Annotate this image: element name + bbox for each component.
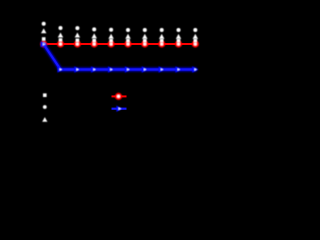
- white square marker 10: [194, 39, 198, 43]
- white up-triangle marker 5: [108, 34, 113, 39]
- legend 2: red line entry: [112, 95, 127, 98]
- white dot marker 10: [193, 28, 197, 32]
- red ring marker 9: [176, 41, 181, 46]
- red ring marker 4: [92, 41, 97, 46]
- blue triangle marker 3: [74, 66, 80, 72]
- red ring marker 1: [41, 41, 46, 46]
- white square marker 2: [59, 38, 63, 42]
- blue triangle marker 1: [41, 41, 47, 47]
- red ring marker 3: [75, 41, 80, 46]
- red ring marker 7: [142, 41, 147, 46]
- red ring marker 10: [193, 41, 198, 46]
- white up-triangle marker 3: [75, 33, 80, 38]
- blue triangle marker 9: [175, 66, 181, 72]
- white dot marker 3: [75, 26, 79, 30]
- blue triangle marker 4: [91, 66, 97, 72]
- red line series: [44, 42, 196, 45]
- white up-triangle marker 9: [176, 34, 181, 39]
- white square marker 9: [177, 39, 181, 43]
- white square marker 8: [160, 39, 164, 43]
- chart canvas: [0, 0, 204, 156]
- blue triangle marker 5: [108, 66, 114, 72]
- white dot marker 7: [143, 28, 147, 32]
- white dot marker 2: [59, 26, 63, 30]
- white up-triangle marker 7: [142, 34, 147, 39]
- legend 2: blue triangle marker: [116, 106, 122, 112]
- white square marker 4: [92, 39, 96, 43]
- white dot marker 4: [92, 27, 96, 31]
- white square marker 5: [109, 39, 113, 43]
- white dot marker 1: [42, 22, 46, 26]
- legend 1: white square entry: [43, 93, 47, 97]
- legend 1: white circle entry: [43, 105, 47, 109]
- white up-triangle marker 4: [92, 33, 97, 38]
- white up-triangle marker 6: [125, 34, 130, 39]
- red ring marker 2: [58, 41, 63, 46]
- white up-triangle marker 8: [159, 34, 164, 39]
- white square marker 1: [42, 37, 46, 41]
- blue triangle marker 2: [57, 66, 63, 72]
- white dot marker 9: [177, 28, 181, 32]
- white dot marker 8: [160, 28, 164, 32]
- blue line series: [44, 44, 196, 69]
- white up-triangle marker 1: [41, 28, 46, 33]
- blue triangle marker 7: [142, 66, 148, 72]
- legend 1: white triangle entry: [42, 117, 47, 122]
- white dot marker 5: [109, 28, 113, 32]
- white square marker 3: [76, 39, 80, 43]
- white dot marker 6: [126, 28, 130, 32]
- red ring marker 5: [109, 41, 114, 46]
- white square marker 6: [126, 39, 130, 43]
- blue triangle marker 8: [159, 66, 165, 72]
- white square marker 7: [143, 39, 147, 43]
- red ring marker 6: [125, 41, 130, 46]
- blue triangle marker 6: [125, 66, 131, 72]
- red ring marker 8: [159, 41, 164, 46]
- white up-triangle marker 2: [58, 33, 63, 38]
- legend 2: red ring marker: [116, 94, 121, 99]
- white up-triangle marker 10: [193, 34, 198, 39]
- blue triangle marker 10: [192, 66, 198, 72]
- legend 2: blue line entry: [112, 107, 127, 110]
